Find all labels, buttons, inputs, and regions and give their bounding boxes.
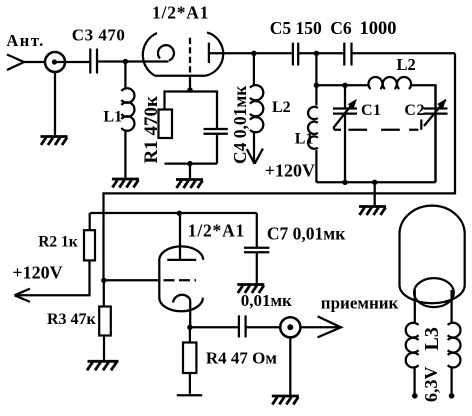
svg-text:6,3V: 6,3V bbox=[421, 367, 441, 403]
svg-text:1/2*A1: 1/2*A1 bbox=[188, 221, 245, 241]
svg-text:L1: L1 bbox=[103, 108, 122, 125]
svg-text:+120V: +120V bbox=[12, 263, 62, 283]
svg-text:1/2*A1: 1/2*A1 bbox=[152, 2, 209, 22]
svg-text:C6: C6 bbox=[330, 18, 352, 38]
svg-text:R2 1к: R2 1к bbox=[38, 233, 78, 250]
svg-text:L2: L2 bbox=[397, 55, 416, 74]
svg-text:L1: L1 bbox=[295, 131, 314, 148]
svg-text:C4 0,01мк: C4 0,01мк bbox=[230, 85, 250, 164]
svg-text:R1 470к: R1 470к bbox=[141, 96, 162, 163]
svg-text:R3 47к: R3 47к bbox=[47, 311, 97, 328]
svg-text:0,01мк: 0,01мк bbox=[241, 291, 292, 310]
svg-text:C3 470: C3 470 bbox=[72, 25, 126, 44]
svg-text:C5 150: C5 150 bbox=[270, 18, 322, 38]
svg-text:C2: C2 bbox=[404, 102, 425, 119]
svg-text:C1: C1 bbox=[361, 102, 382, 119]
svg-text:R4 47 Ом: R4 47 Ом bbox=[206, 348, 278, 367]
svg-text:1000: 1000 bbox=[360, 19, 397, 39]
svg-text:L3: L3 bbox=[421, 327, 443, 350]
svg-text:L2: L2 bbox=[272, 99, 291, 116]
svg-text:приемник: приемник bbox=[321, 294, 399, 313]
svg-text:C7 0,01мк: C7 0,01мк bbox=[267, 224, 346, 244]
svg-text:+120V: +120V bbox=[265, 161, 315, 181]
svg-text:Ант.: Ант. bbox=[6, 31, 44, 50]
